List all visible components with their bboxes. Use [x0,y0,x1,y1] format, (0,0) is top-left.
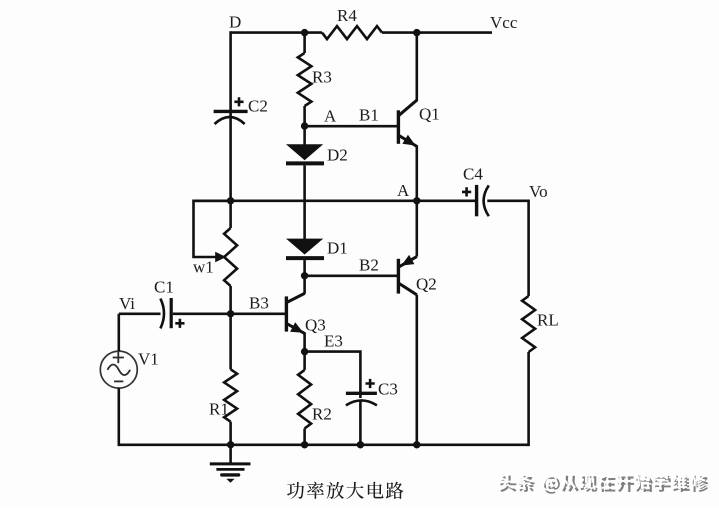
junction bottom-Q2 [413,441,420,448]
junction top-R3 [301,29,308,36]
svg-text:D1: D1 [327,239,348,258]
capacitor C3 [346,392,377,395]
svg-text:A: A [397,181,410,200]
wire node B2 down to Q3 collector [303,276,306,294]
wire node B2 to Q2 base [305,274,399,277]
wire Q1 emitter to node A2 [415,145,418,200]
resistor R3 [298,53,312,106]
wire Q2 emitter up to node A2 [415,201,418,257]
svg-text:B1: B1 [359,106,379,125]
svg-text:R4: R4 [337,6,357,25]
svg-text:RL: RL [537,311,559,330]
transistor Q1 [397,110,400,144]
svg-text:C4: C4 [463,165,483,184]
transistor Q2 [397,259,400,294]
potentiometer w1 resistor [224,228,237,286]
svg-text:Vi: Vi [119,294,135,313]
wire node E3 down to R2 [303,352,306,370]
svg-text:C1: C1 [154,278,174,297]
svg-text:C2: C2 [248,97,268,116]
wire mid to w1 resistor [229,201,232,228]
wire R3 to node A [303,106,306,126]
wire Vi down to V1 [118,314,121,351]
junction bottom-C3 [357,441,364,448]
svg-text:E3: E3 [324,332,343,351]
capacitor C4 [475,185,478,216]
junction bottom-R1 [227,441,234,448]
wire node B3 down to R1 [229,314,232,370]
wire V1 to bottom rail [118,388,121,446]
wire node A to Q1 base [305,125,399,128]
wire Vi to C1 [119,312,161,315]
diode D1 [286,239,323,255]
capacitor C1 [160,299,164,329]
wire C4 to Vo corner [487,200,528,203]
node A2 junction [413,197,420,204]
svg-text:Vcc: Vcc [490,13,518,32]
svg-text:D: D [229,13,241,32]
wire R2 to bottom rail [303,429,306,445]
svg-text:Q1: Q1 [419,105,440,124]
junction bottom-R2 [301,441,308,448]
C3 polarity plus [366,379,375,388]
svg-text:A: A [324,107,337,126]
wire Vo down to RL [527,200,530,297]
wire C1 to node B3 [173,312,231,315]
svg-text:R3: R3 [312,68,332,87]
svg-text:B3: B3 [249,294,269,313]
potentiometer w1 loop wire [194,201,231,257]
wire R4 to Vcc [382,31,492,34]
C4 polarity plus [462,187,471,196]
C1 polarity plus [175,319,184,328]
svg-text:Vo: Vo [529,182,548,201]
node A junction [301,122,308,129]
wire D down to C2 [229,31,232,118]
wire mid to C4 [417,200,475,203]
wire C2 to mid rail [229,118,232,201]
resistor R2 [298,370,311,429]
mid rail wire [194,200,417,203]
node B2 junction [301,272,308,279]
diode D2 [286,144,323,160]
wire RL to bottom rail [527,352,530,446]
wire R1 to bottom rail [229,422,232,445]
svg-text:D2: D2 [327,146,348,165]
wire top to R3 [303,33,306,53]
wire D1 to node B2 [303,260,306,276]
title 功率放大电路 [287,482,403,499]
wire C3 to bottom rail [359,401,362,445]
bottom rail wire [119,443,529,446]
node B3 junction [227,310,234,317]
svg-text:C3: C3 [378,380,398,399]
wire Q2 collector to bottom rail [415,295,418,445]
potentiometer w1 wiper arrow [215,252,226,262]
svg-text:Q2: Q2 [416,275,437,294]
wire w1 to node B3 [229,286,232,314]
transistor Q3 [285,296,288,331]
resistor RL [522,296,535,352]
junction top-Q1 [413,29,420,36]
diode D2 anode wire [303,126,306,145]
svg-text:R2: R2 [312,405,332,424]
svg-text:B2: B2 [359,256,379,275]
node E3 junction [301,348,308,355]
wire node E3 to C3 [305,352,361,398]
C2 polarity plus [234,97,243,106]
wire node B3 to Q3 base [231,312,287,315]
source V1 [100,351,137,388]
wire Q1 collector to top rail [415,31,418,101]
resistor R1 [224,369,237,421]
resistor R4 [322,26,382,39]
svg-text:V1: V1 [138,350,159,369]
wire top rail D to R4 [231,31,322,34]
svg-text:R1: R1 [209,400,229,419]
ground [229,445,232,463]
capacitor C2 [214,110,248,113]
wire D2 to D1 [303,165,306,239]
svg-text:Q3: Q3 [305,316,326,335]
junction mid-left [227,197,234,204]
watermark 头条@从现在开始学维修 [500,475,708,493]
wire Q3 emitter to node E3 [303,332,306,351]
svg-text:w1: w1 [193,258,214,277]
